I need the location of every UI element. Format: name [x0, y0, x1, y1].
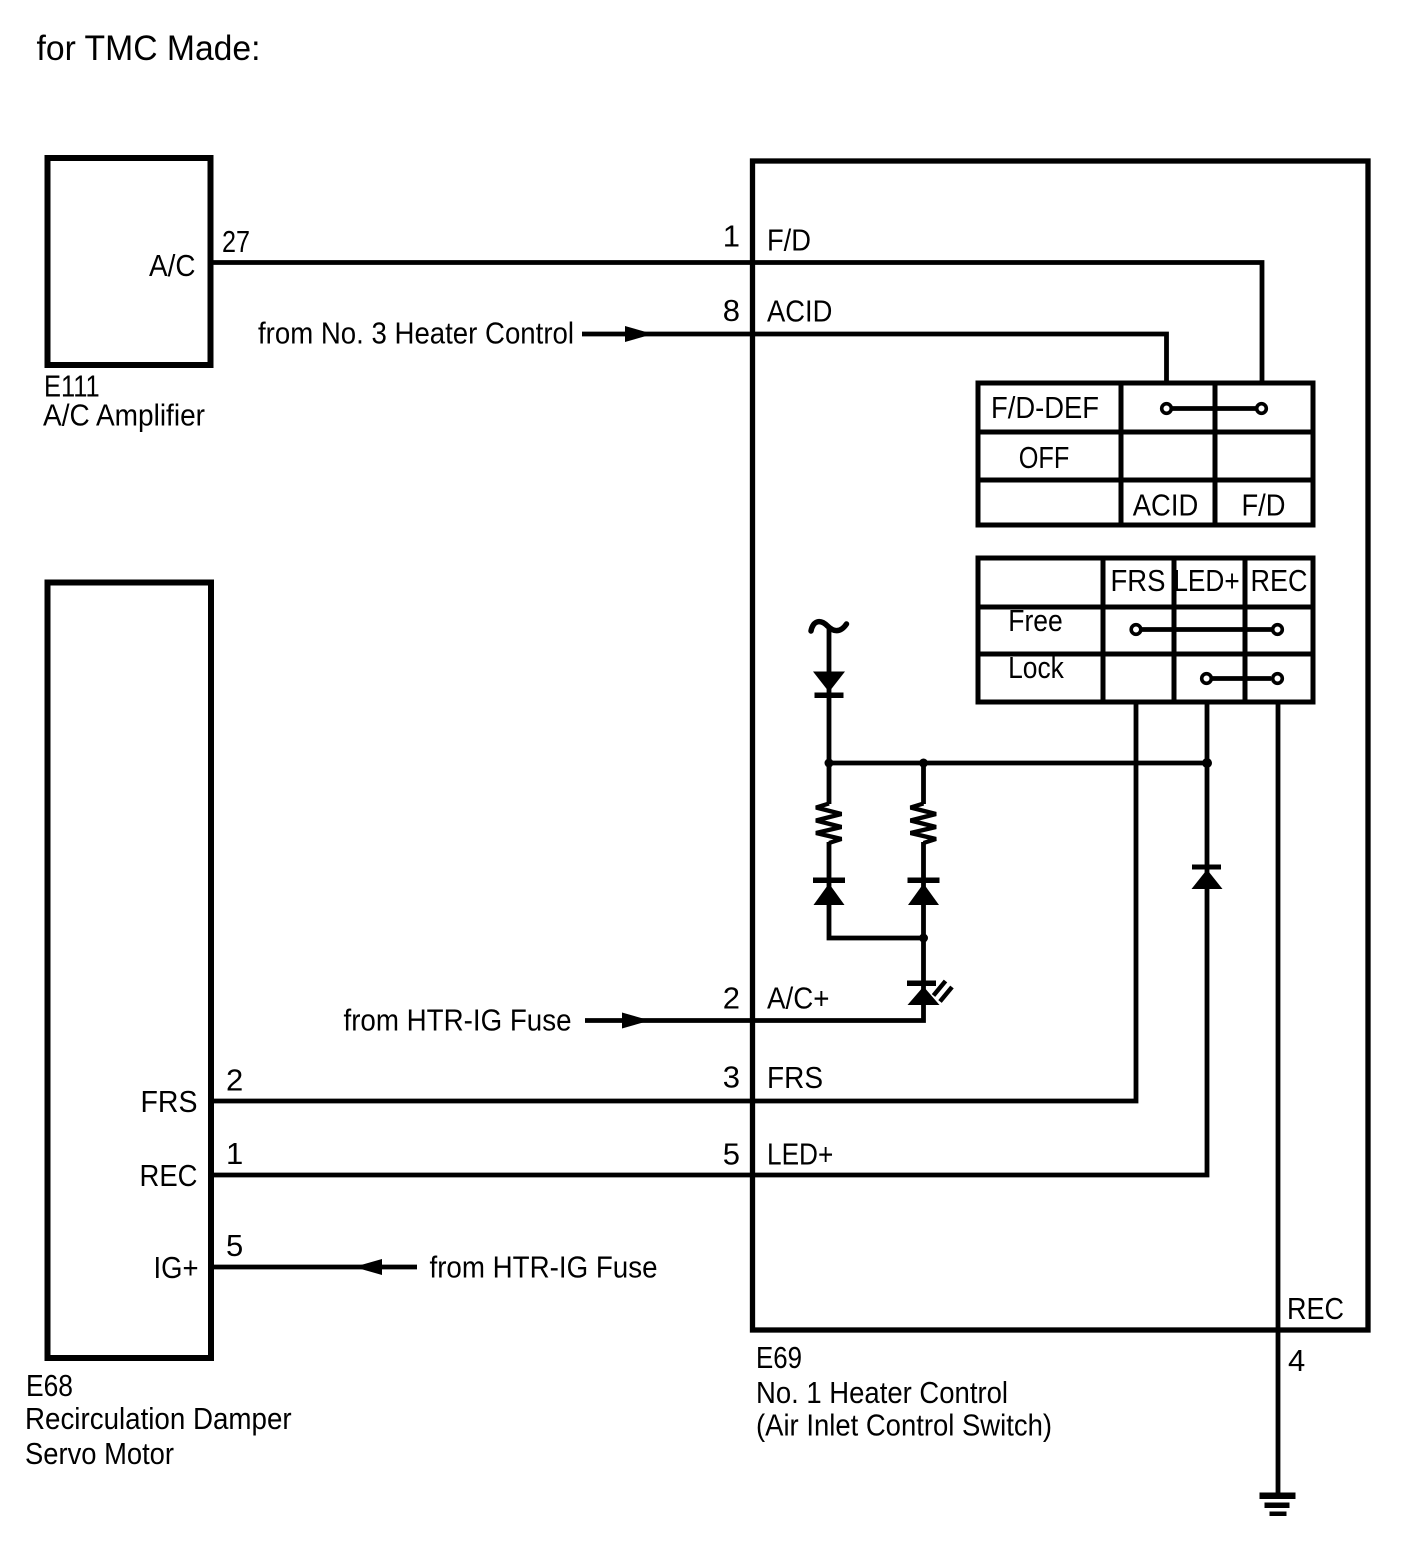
wire IG+ from HTR-IG Fuse [211, 1265, 417, 1270]
switch contact row F/D-DEF [1173, 406, 1256, 411]
svg-text:(Air Inlet Control Switch): (Air Inlet Control Switch) [756, 1408, 1052, 1443]
junction dot left [825, 759, 834, 768]
svg-text:FRS: FRS [141, 1084, 198, 1119]
svg-text:A/C+: A/C+ [767, 981, 830, 1016]
svg-text:from HTR-IG Fuse: from HTR-IG Fuse [430, 1250, 658, 1285]
svg-text:2: 2 [723, 981, 740, 1016]
diode D1 (cathode down) [813, 672, 845, 693]
svg-text:3: 3 [723, 1060, 740, 1095]
resistor R1 [816, 804, 842, 844]
resistor R2 [911, 804, 937, 844]
junction dot mid [919, 759, 928, 768]
connector box E69 No. 1 Heater Control [753, 161, 1369, 1330]
svg-text:No. 1 Heater Control: No. 1 Heater Control [756, 1375, 1008, 1410]
wire left branch lower [829, 842, 924, 938]
wire A/C+ net from HTR-IG Fuse [585, 842, 924, 1021]
svg-text:4: 4 [1288, 1343, 1305, 1378]
LED light arrows [934, 981, 946, 996]
svg-text:E68: E68 [26, 1368, 73, 1403]
diode D2 (cathode up) [813, 878, 845, 884]
svg-text:REC: REC [1287, 1291, 1344, 1326]
connector box E111 A/C Amplifier [48, 158, 211, 365]
wire LED+ net: E68 pin 1 to E69 pin 5 and table [213, 702, 1207, 1175]
svg-text:8: 8 [723, 293, 740, 328]
svg-text:A/C Amplifier: A/C Amplifier [43, 398, 205, 433]
wire FRS net: E68 pin 2 to E69 pin 3 and table [213, 702, 1136, 1101]
svg-text:5: 5 [226, 1228, 243, 1263]
svg-text:Lock: Lock [1008, 650, 1064, 685]
svg-text:ACID: ACID [1133, 488, 1199, 523]
arrowhead right [622, 1013, 650, 1029]
svg-text:Servo Motor: Servo Motor [25, 1436, 174, 1471]
connector box E68 Recirculation Damper Servo Motor [48, 583, 212, 1359]
arrowhead right [625, 326, 653, 342]
svg-text:Free: Free [1008, 603, 1063, 638]
svg-text:FRS: FRS [767, 1060, 823, 1095]
switch table FRS LED+ REC / Free / Lock [978, 558, 1313, 702]
svg-text:REC: REC [1251, 563, 1308, 598]
svg-text:OFF: OFF [1019, 440, 1070, 475]
internal power squiggle [811, 622, 847, 631]
svg-text:F/D: F/D [767, 223, 811, 258]
svg-text:1: 1 [723, 219, 740, 254]
switch table F/D-DEF / OFF / ACID F/D [978, 383, 1313, 525]
svg-text:E69: E69 [756, 1340, 802, 1375]
svg-text:A/C: A/C [149, 248, 196, 283]
switch contact row Free [1142, 627, 1272, 632]
node bus horizontal [829, 761, 1207, 766]
svg-text:F/D-DEF: F/D-DEF [991, 390, 1099, 425]
arrowhead left [354, 1259, 382, 1275]
svg-text:from HTR-IG Fuse: from HTR-IG Fuse [344, 1003, 572, 1038]
diode D3 (cathode up) [908, 878, 940, 884]
ground [1260, 1493, 1296, 1500]
wire F/D net: E111 pin 27 to switch table [213, 263, 1262, 384]
svg-text:IG+: IG+ [154, 1250, 199, 1285]
svg-text:for TMC Made:: for TMC Made: [37, 29, 261, 68]
svg-text:from No. 3 Heater Control: from No. 3 Heater Control [258, 316, 574, 351]
diode D4 (cathode up) on LED+ line [1192, 865, 1221, 870]
svg-text:ACID: ACID [767, 294, 832, 329]
svg-text:F/D: F/D [1242, 488, 1286, 523]
wire squiggle branch vertical [827, 629, 832, 804]
LED D5 [907, 981, 936, 987]
svg-text:5: 5 [723, 1137, 740, 1172]
svg-text:LED+: LED+ [1173, 563, 1239, 598]
svg-text:27: 27 [222, 224, 250, 259]
wire REC net to ground [1276, 702, 1281, 1494]
junction dot right [1202, 758, 1212, 768]
svg-text:REC: REC [140, 1158, 198, 1193]
svg-text:2: 2 [226, 1063, 243, 1098]
wire right branch vertical [921, 763, 926, 804]
switch contact row Lock [1213, 676, 1272, 681]
svg-text:Recirculation Damper: Recirculation Damper [25, 1401, 292, 1436]
svg-text:FRS: FRS [1111, 563, 1166, 598]
junction dot lower [919, 934, 928, 943]
svg-text:LED+: LED+ [767, 1137, 833, 1172]
wire ACID net: from No. 3 Heater Control to switch table [582, 334, 1167, 383]
svg-text:1: 1 [226, 1136, 243, 1171]
